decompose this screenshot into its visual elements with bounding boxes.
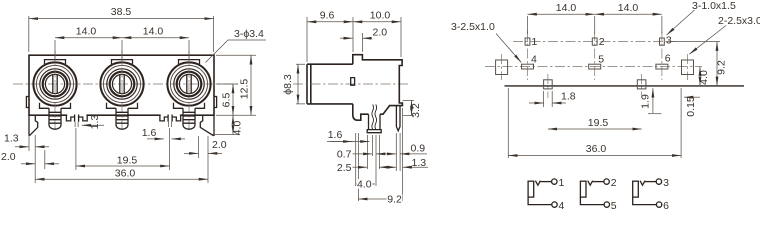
dim 9.6 (307, 10, 353, 63)
dim 9.2 layout (668, 42, 728, 86)
pad 2 (592, 38, 597, 45)
svg-text:5: 5 (611, 200, 617, 209)
dim 4.0 right (232, 115, 244, 135)
svg-text:1.3: 1.3 (4, 133, 19, 145)
label 2-2.5x3.0 leader (689, 15, 760, 54)
jack1 vertical centerline (54, 50, 56, 130)
dim 1.3 side (403, 157, 428, 169)
side bottom extension lines (356, 108, 403, 201)
dim 3.2 (403, 100, 423, 117)
svg-text:19.5: 19.5 (117, 155, 138, 167)
dim 4.0 side (356, 179, 375, 191)
jack1 slot (53, 75, 57, 94)
dim 14.0 layout left (528, 2, 662, 34)
SW3 contact rect (633, 181, 639, 197)
dim 2.0 side (340, 26, 387, 52)
ext lines 1.8 (544, 91, 553, 107)
svg-text:1: 1 (532, 36, 538, 48)
svg-text:4.0: 4.0 (698, 70, 710, 85)
horizontal centerline (13, 83, 238, 85)
SW1 bottom wire (528, 197, 552, 205)
SW3 pin 3 circle (656, 179, 661, 184)
dim 1.6 side (327, 129, 370, 141)
label 3-2.5x1.0 leader (451, 21, 521, 63)
dim 14.0 layout right (595, 2, 662, 14)
svg-text:5: 5 (598, 54, 604, 66)
bottom extension lines front (29, 128, 208, 183)
SW2 check contact (588, 181, 593, 186)
jack3 vertical centerline (188, 50, 190, 130)
svg-text:38.5: 38.5 (111, 6, 132, 18)
pad 3 (660, 38, 665, 45)
dim 12.5 (239, 55, 252, 115)
jack3 rings (167, 62, 210, 105)
svg-text:1.3: 1.3 (412, 157, 427, 169)
pad 1 (525, 38, 530, 45)
big pad left (496, 60, 508, 75)
pad 5 (589, 64, 601, 69)
dim 2.5 side (337, 162, 396, 174)
svg-text:36.0: 36.0 (115, 168, 136, 180)
svg-text:2: 2 (611, 177, 617, 189)
middle notch B (161, 114, 180, 117)
middle notch A (67, 114, 86, 117)
label 3-phi3.4 with leader (206, 28, 267, 63)
bottom pad left (544, 80, 553, 89)
switch SW1 (528, 177, 564, 212)
jack1 pin ribbed (40, 103, 71, 129)
svg-text:2: 2 (599, 36, 605, 48)
dim 36.0 layout (508, 88, 681, 158)
svg-text:14.0: 14.0 (76, 26, 97, 38)
bottom pad right (637, 80, 646, 89)
SW3 check contact (640, 181, 645, 186)
svg-text:6.5: 6.5 (221, 93, 233, 108)
jack 3 (167, 50, 210, 130)
dim 10.0 (353, 10, 401, 58)
svg-text:1: 1 (559, 177, 565, 189)
jack3 slot (187, 75, 191, 94)
pcb edge line (505, 85, 745, 87)
svg-text:19.5: 19.5 (588, 117, 609, 129)
SW1 top wire (540, 181, 551, 183)
front body outline (29, 55, 214, 115)
svg-text:4: 4 (559, 200, 565, 209)
jack2 vertical centerline (121, 50, 123, 130)
svg-text:9.6: 9.6 (320, 10, 335, 22)
svg-text:0.15: 0.15 (685, 96, 697, 117)
dim 1.3 middle leader (82, 115, 104, 130)
svg-text:3: 3 (666, 35, 672, 47)
jack1 top tab (45, 60, 66, 64)
dim 2.0 right (184, 139, 227, 153)
dim 0.7 side (337, 148, 396, 160)
svg-text:ϕ8.3: ϕ8.3 (282, 74, 294, 95)
svg-text:9.2: 9.2 (716, 60, 728, 75)
jack3 top tab (179, 60, 200, 64)
jack2 slot (120, 75, 124, 94)
dim 4.0 layout (698, 67, 710, 86)
svg-text:14.0: 14.0 (556, 2, 577, 14)
dim 6.5 (221, 84, 234, 115)
dim 1.8 (529, 91, 576, 104)
right edge lug (214, 97, 217, 108)
dim 1.6 (142, 127, 185, 139)
svg-text:0.7: 0.7 (337, 148, 352, 160)
dim 1.9 tail (648, 113, 662, 115)
svg-text:3: 3 (663, 177, 669, 189)
side middle pin with wavy spring (367, 105, 381, 133)
dim 9.2 side (358, 194, 402, 206)
svg-text:10.0: 10.0 (370, 10, 391, 22)
svg-text:1.9: 1.9 (639, 94, 651, 109)
side body outline (353, 55, 403, 121)
SW2 pin 2 circle (604, 179, 609, 184)
svg-text:6: 6 (663, 200, 669, 209)
SW1 pin 4 circle (552, 202, 557, 207)
switch SW3 (633, 177, 669, 212)
SW3 top wire (645, 181, 656, 183)
svg-text:36.0: 36.0 (586, 143, 607, 155)
svg-text:14.0: 14.0 (143, 26, 164, 38)
big pad right (682, 60, 694, 75)
dim 1.3 left (4, 133, 49, 147)
svg-text:12.5: 12.5 (239, 79, 251, 100)
svg-text:4.0: 4.0 (357, 179, 372, 191)
dim 14.0 right (122, 26, 189, 38)
pad 4 (522, 64, 534, 69)
svg-text:1.8: 1.8 (561, 91, 576, 103)
jack2 rings (100, 62, 143, 105)
SW2 bottom wire (580, 197, 604, 205)
jack 2 (100, 50, 143, 130)
dim phi8.3 (282, 64, 305, 104)
right corner leg (200, 115, 214, 136)
label 3-1.0x1.5 leader (667, 0, 736, 35)
dim 19.5 front (76, 155, 170, 167)
svg-text:3.2: 3.2 (410, 103, 422, 118)
dim 0.9 (400, 142, 427, 154)
SW3 bottom wire (633, 197, 657, 205)
SW2 contact rect (580, 181, 586, 197)
SW3 pin 6 circle (656, 202, 661, 207)
dim 1.9 (639, 88, 653, 113)
svg-text:1.6: 1.6 (142, 127, 157, 139)
dim 19.5 layout (548, 117, 642, 129)
svg-text:2-2.5x3.0: 2-2.5x3.0 (718, 15, 760, 27)
switch SW2 (580, 177, 616, 212)
jack 1 (33, 50, 76, 130)
side right pin (396, 106, 400, 131)
jack2 pin ribbed (107, 103, 138, 129)
svg-text:2.0: 2.0 (373, 26, 388, 38)
column centerlines (528, 31, 662, 80)
jack1 rings (33, 62, 76, 105)
divider bump (351, 78, 355, 86)
svg-text:3-2.5x1.0: 3-2.5x1.0 (451, 21, 495, 33)
svg-text:1.6: 1.6 (328, 129, 343, 141)
svg-text:2.0: 2.0 (212, 139, 227, 151)
SW1 check contact (535, 181, 540, 186)
svg-text:4: 4 (531, 54, 537, 66)
svg-text:14.0: 14.0 (618, 2, 639, 14)
svg-text:2.0: 2.0 (1, 151, 16, 163)
svg-text:3-ϕ3.4: 3-ϕ3.4 (234, 28, 264, 40)
dim 36.0 front (35, 168, 208, 180)
SW2 top wire (593, 181, 604, 183)
SW2 pin 5 circle (604, 202, 609, 207)
side centerline (293, 83, 410, 85)
barrel (293, 64, 410, 104)
svg-text:0.9: 0.9 (411, 142, 426, 154)
svg-text:3-1.0x1.5: 3-1.0x1.5 (692, 0, 736, 12)
row centerlines (485, 42, 702, 67)
pad 6 (656, 64, 668, 69)
dim 14.0 left (55, 26, 189, 63)
svg-text:9.2: 9.2 (387, 194, 402, 206)
left corner leg (29, 115, 38, 136)
svg-text:4.0: 4.0 (232, 121, 244, 136)
svg-text:1.3: 1.3 (89, 115, 101, 130)
svg-text:2.5: 2.5 (337, 162, 352, 174)
bottom pad centerlines (502, 54, 688, 98)
svg-text:6: 6 (665, 53, 671, 65)
SW1 contact rect (528, 181, 534, 197)
SW1 pin 1 circle (552, 179, 557, 184)
jack3 pin ribbed (174, 103, 205, 129)
dim 2.0 left (1, 151, 59, 164)
right side extension lines (212, 55, 256, 134)
dim 38.5 (29, 6, 214, 52)
jack2 top tab (112, 60, 133, 64)
dim 0.15 (684, 96, 700, 117)
left edge lug (26, 97, 29, 108)
